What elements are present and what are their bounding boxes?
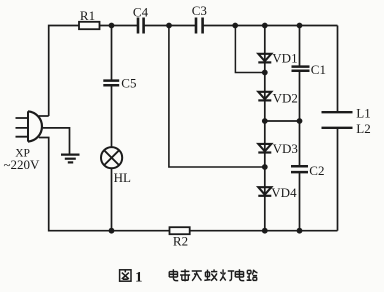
wire drop from node C to VD1/VD2 junction xyxy=(235,26,264,73)
node J3 junction dot (VD3/VD4) xyxy=(262,164,268,170)
hanzi 灭 xyxy=(192,271,202,281)
capacitor C4 xyxy=(133,4,149,33)
hanzi 击 xyxy=(180,269,190,281)
wire R2 to bottom right corner xyxy=(190,230,338,232)
wire C2 bottom to bottom rail xyxy=(299,172,301,231)
wire plug to ground xyxy=(43,128,70,154)
hanzi 蚊 xyxy=(204,269,217,280)
hanzi 灯 xyxy=(220,269,234,280)
caption 图 1 电击灭蚊灯电路 xyxy=(120,269,258,285)
wire R1 to C4 xyxy=(100,25,139,27)
diode VD4 xyxy=(258,185,297,200)
node H junction dot (C2 bottom) xyxy=(297,228,303,234)
svg-text:HL: HL xyxy=(114,170,131,185)
diode VD3 xyxy=(258,141,298,156)
hanzi 图 xyxy=(120,270,131,281)
node C junction dot (left drop) xyxy=(232,23,238,29)
node F junction dot (HL bottom) xyxy=(109,228,115,234)
plug XP xyxy=(4,111,42,172)
node A junction dot (C5 tap) xyxy=(109,23,115,29)
svg-text:L1: L1 xyxy=(356,106,370,121)
svg-text:R2: R2 xyxy=(173,234,188,249)
node J2b junction dot (C column) xyxy=(297,118,303,124)
hanzi 路 xyxy=(247,270,258,281)
wire C5 to HL xyxy=(111,85,113,147)
node B junction dot (VD3/VD4 tap) xyxy=(166,23,172,29)
diode VD2 xyxy=(258,90,298,105)
resistor R1 xyxy=(79,8,100,29)
wire diode chain vertical xyxy=(264,26,266,231)
svg-text:R1: R1 xyxy=(80,8,95,23)
diode VD1 xyxy=(258,50,297,65)
wire C5 branch vertical xyxy=(111,26,113,81)
node J2 junction dot (VD2/VD3) xyxy=(262,118,268,124)
wire C4 to C3 xyxy=(144,25,196,27)
node G junction dot (diode chain bottom) xyxy=(262,228,268,234)
svg-text:C4: C4 xyxy=(133,4,149,19)
capacitor C2 xyxy=(291,163,324,178)
grid electrode L1 xyxy=(322,106,371,121)
svg-text:VD3: VD3 xyxy=(273,141,298,156)
wire top left rail xyxy=(49,26,79,117)
svg-text:L2: L2 xyxy=(356,121,370,136)
wire plug top terminal xyxy=(39,115,49,117)
hanzi 电 xyxy=(169,269,178,280)
ground xyxy=(61,155,80,163)
capacitor C5 xyxy=(103,76,136,91)
node J1 junction dot (VD1/VD2) xyxy=(262,70,268,76)
svg-text:C3: C3 xyxy=(192,3,207,18)
wire C1 bottom to J2b to C2 top xyxy=(299,71,301,166)
svg-text:C5: C5 xyxy=(121,76,136,91)
svg-text:~220V: ~220V xyxy=(4,157,41,172)
node D junction dot (diode chain top) xyxy=(262,23,268,29)
svg-text:1: 1 xyxy=(135,270,143,286)
wire HL to bottom rail xyxy=(111,168,113,230)
svg-text:C1: C1 xyxy=(311,62,326,77)
wire C3 to right rail xyxy=(203,25,338,27)
wire plug bottom terminal / left bottom rail xyxy=(39,138,170,231)
hanzi 电 (second) xyxy=(235,269,244,280)
svg-text:VD1: VD1 xyxy=(272,50,297,65)
wire right rail to L1 xyxy=(337,26,339,113)
wire VD2/VD3 junction to C1/C2 junction xyxy=(265,120,300,122)
capacitor C3 xyxy=(192,3,207,33)
wire drop from node B to VD3/VD4 junction xyxy=(169,26,265,168)
grid electrode L2 xyxy=(322,121,371,136)
svg-text:C2: C2 xyxy=(309,163,324,178)
svg-text:VD4: VD4 xyxy=(271,185,297,200)
svg-text:VD2: VD2 xyxy=(273,90,298,105)
resistor R2 xyxy=(170,227,190,248)
wire C column vertical top xyxy=(299,26,301,67)
wire L2 to bottom right corner xyxy=(337,128,339,231)
node E junction dot (C1 top) xyxy=(297,23,303,29)
capacitor C1 xyxy=(292,62,326,77)
lamp HL xyxy=(101,147,131,185)
